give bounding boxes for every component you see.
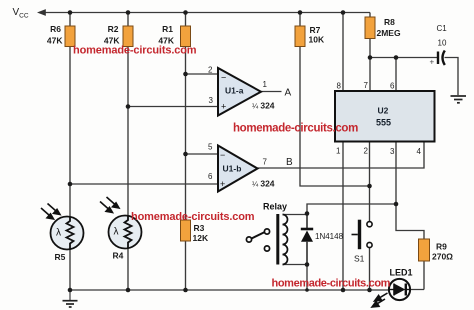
svg-text:U1-a: U1-a xyxy=(225,86,244,96)
svg-text:1: 1 xyxy=(336,147,341,156)
wire R9 bottom to LED xyxy=(423,261,425,290)
wire op-amp U1-a pin3 input xyxy=(128,106,218,108)
svg-text:+: + xyxy=(220,179,225,189)
relay lever xyxy=(251,232,264,239)
svg-text:R1: R1 xyxy=(162,24,173,34)
wire relay drive row from pin3 xyxy=(307,204,396,214)
wire pin6 stub xyxy=(395,58,397,92)
svg-text:10K: 10K xyxy=(309,35,325,45)
wire B row to 555 pin4 xyxy=(258,142,425,169)
wire relay coil bottom row xyxy=(283,264,308,266)
photoresistor R4 xyxy=(109,216,142,249)
resistor R2 xyxy=(123,26,133,47)
ground (left rail) xyxy=(69,290,71,300)
svg-text:10: 10 xyxy=(438,39,447,48)
wire ground rail bottom xyxy=(70,289,370,291)
svg-text:homemade-circuits.com: homemade-circuits.com xyxy=(131,211,255,223)
svg-text:A: A xyxy=(285,88,292,99)
resistor R7 xyxy=(295,26,305,47)
svg-text:12K: 12K xyxy=(193,233,209,243)
wire diode bottom to ground rail xyxy=(306,265,308,291)
svg-text:1N4148: 1N4148 xyxy=(315,232,344,241)
wire R8 bottom to junction row xyxy=(370,39,437,58)
LED emission arrows xyxy=(372,293,388,307)
svg-text:2MEG: 2MEG xyxy=(377,28,401,38)
photoresistor R5 xyxy=(51,217,84,250)
resistor R8 xyxy=(365,17,375,39)
relay coil xyxy=(283,215,288,265)
wire R8 drop from rail xyxy=(369,13,371,18)
svg-text:555: 555 xyxy=(376,118,391,128)
svg-text:λ: λ xyxy=(56,228,61,239)
wire S1 bottom to rail xyxy=(369,248,371,290)
wire LED row xyxy=(370,289,425,292)
svg-text:R5: R5 xyxy=(55,252,66,262)
svg-text:B: B xyxy=(286,157,293,168)
svg-text:3: 3 xyxy=(209,96,214,105)
wire op-amp U1-a pin2 input xyxy=(186,73,219,75)
svg-text:7: 7 xyxy=(364,81,369,90)
svg-text:homemade-circuits.com: homemade-circuits.com xyxy=(73,45,197,57)
svg-text:C1: C1 xyxy=(437,24,448,33)
wire A output stub xyxy=(261,91,282,93)
wire 555 pin3 column xyxy=(396,142,424,240)
relay core xyxy=(276,214,279,265)
wire pin8 column xyxy=(342,13,344,92)
Vcc arrowhead xyxy=(37,9,46,16)
LED1 xyxy=(389,279,410,300)
wire C1 right to ground xyxy=(445,58,459,96)
resistor R6 xyxy=(65,26,75,47)
wire column R7 down and over to pin2 junction xyxy=(300,13,370,187)
svg-text:270Ω: 270Ω xyxy=(432,252,453,262)
ground (C1) xyxy=(451,96,467,103)
wire column R6/R5 xyxy=(69,13,71,291)
wire column R2/R4 xyxy=(127,13,129,291)
op-amp U1-b xyxy=(218,146,258,192)
svg-text:6: 6 xyxy=(208,172,213,181)
wire column R1/R3 xyxy=(185,13,187,291)
svg-text:8: 8 xyxy=(337,82,342,91)
svg-text:LED1: LED1 xyxy=(390,268,413,278)
svg-text:1: 1 xyxy=(263,80,268,89)
svg-text:3: 3 xyxy=(390,147,395,156)
svg-text:homemade-circuits.com: homemade-circuits.com xyxy=(272,278,391,290)
svg-text:¼ 324: ¼ 324 xyxy=(252,179,275,189)
svg-text:¼ 324: ¼ 324 xyxy=(252,101,275,111)
svg-text:homemade-circuits.com: homemade-circuits.com xyxy=(233,123,358,135)
svg-text:2: 2 xyxy=(208,66,213,75)
resistor R1 xyxy=(181,26,191,47)
resistor R3 xyxy=(181,220,191,241)
relay contacts xyxy=(246,229,269,251)
svg-text:R8: R8 xyxy=(384,17,395,27)
svg-text:R7: R7 xyxy=(310,25,321,35)
wire 555 pin1 column to ground rail xyxy=(342,142,344,291)
svg-text:R9: R9 xyxy=(436,242,447,252)
svg-text:5: 5 xyxy=(208,143,213,152)
op-amp U1-a xyxy=(218,68,261,116)
svg-text:−: − xyxy=(221,73,226,83)
svg-text:+: + xyxy=(430,58,435,67)
wire op-amp U1-b pin5 input xyxy=(186,153,219,155)
wire relay coil top row xyxy=(283,214,308,216)
capacitor C1 xyxy=(438,51,445,66)
svg-text:4: 4 xyxy=(417,147,422,156)
svg-text:R6: R6 xyxy=(50,24,61,34)
svg-text:U1-b: U1-b xyxy=(223,164,242,174)
svg-text:λ: λ xyxy=(114,227,119,238)
light arrows R4 xyxy=(100,197,119,213)
svg-text:R2: R2 xyxy=(108,24,119,34)
wire Vcc top rail xyxy=(43,12,370,14)
svg-text:Relay: Relay xyxy=(263,202,287,212)
svg-text:+: + xyxy=(221,102,226,112)
IC U2 555 xyxy=(335,91,435,142)
wire 555 pin2 column to S1 xyxy=(369,142,371,222)
svg-text:U2: U2 xyxy=(378,106,389,116)
svg-text:47K: 47K xyxy=(47,36,63,46)
svg-text:2: 2 xyxy=(364,147,369,156)
svg-text:7: 7 xyxy=(263,158,268,167)
resistor R9 xyxy=(419,239,430,261)
switch S1 xyxy=(367,222,372,248)
svg-text:R4: R4 xyxy=(113,251,124,261)
wire pin7 stub xyxy=(369,58,371,92)
wire op-amp U1-b pin6 input xyxy=(70,183,218,185)
light arrows R5 xyxy=(41,204,60,220)
svg-text:−: − xyxy=(220,150,225,160)
svg-text:R3: R3 xyxy=(194,223,205,233)
svg-text:6: 6 xyxy=(390,82,395,91)
diode D1 1N4148 xyxy=(301,228,313,231)
svg-text:S1: S1 xyxy=(354,254,365,264)
